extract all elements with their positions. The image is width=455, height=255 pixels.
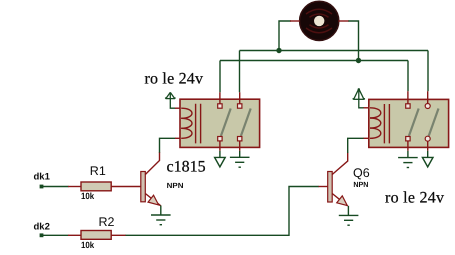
ground under relay RL2: [398, 158, 418, 168]
relay RL1 pin squares: [218, 104, 242, 141]
transistor Q6 emitter arrow: [337, 196, 348, 206]
transistor Q6 emitter lead: [332, 194, 347, 206]
transistor Q6 collector lead: [332, 153, 348, 175]
terminal dk2 node dot: [40, 233, 44, 237]
svg-text:ro le 24v: ro le 24v: [145, 71, 204, 88]
relay RL2 pin squares (left): [406, 104, 410, 141]
junction node net B: [356, 58, 361, 63]
wire dk2 to R2: [43, 234, 69, 236]
arrow terminal under RL1 (open down triangle): [215, 157, 226, 167]
wire RL1 NO pin to ground: [239, 151, 241, 157]
transistor Q1 collector lead: [145, 152, 159, 175]
relay RL2 pin circles (right): [425, 104, 430, 142]
relay RL2 core lines: [384, 104, 389, 143]
wire motor left lead to net A: [279, 21, 291, 51]
arrow terminal under RL2 (open down triangle): [422, 157, 433, 167]
wire Q6 collector to RL2 coil: [348, 138, 364, 153]
wire riser net B to relay RL2 left pin: [407, 61, 409, 92]
wire RL1 NC pin to arrow terminal: [219, 151, 221, 158]
resistor R2 right lead: [111, 234, 126, 236]
resistor R2 body: [81, 231, 111, 240]
svg-text:10k: 10k: [81, 240, 95, 250]
relay RL2 contact arm 2: [429, 109, 439, 137]
svg-text:10k: 10k: [81, 191, 95, 201]
svg-text:dk2: dk2: [34, 222, 50, 233]
ground under relay RL1: [230, 157, 250, 167]
wire Q6 emitter to ground: [347, 206, 349, 216]
relay RL2 coil arcs: [370, 108, 381, 139]
wire dk1 to R1: [43, 186, 69, 188]
resistor R1 left lead: [68, 186, 81, 188]
relay RL1 body: [180, 99, 260, 147]
wire motor right lead to net B: [348, 21, 359, 61]
motor M1 left pin stub: [290, 20, 300, 22]
relay RL1 core lines: [196, 104, 201, 144]
wire riser net A to relay RL2 right pin: [427, 51, 429, 92]
wire RL2 right pin to arrow terminal: [427, 151, 429, 158]
motor M1 right pin stub: [339, 20, 349, 22]
svg-text:R2: R2: [99, 215, 115, 229]
relay RL2 body: [369, 99, 449, 147]
wire riser relay RL1 pin to net B: [219, 61, 221, 93]
transistor Q6 base bar: [328, 172, 333, 203]
wire net A horizontal (motor terminal 1 bus): [240, 50, 429, 52]
svg-text:ro le 24v: ro le 24v: [385, 190, 444, 207]
junction node net A: [276, 48, 281, 53]
svg-text:NPN: NPN: [167, 181, 184, 190]
wire net B horizontal (motor terminal 2 bus): [220, 60, 408, 62]
relay RL1 contact arm 1: [221, 109, 231, 137]
resistor R1 body: [81, 182, 111, 191]
wire RL1 coil bottom stub: [175, 137, 181, 139]
terminal dk1 node dot: [40, 185, 44, 189]
wire Q1 emitter to ground: [160, 206, 162, 216]
ground under Q1: [151, 215, 171, 225]
transistor Q1 emitter arrow: [148, 195, 159, 205]
transistor Q1 c1815 base bar: [141, 172, 146, 202]
relay RL1 coil arcs: [181, 108, 192, 138]
wire power arrow to RL2 coil stub: [364, 107, 370, 109]
relay RL2 contact arm 1: [409, 109, 419, 137]
motor M1 body: [300, 1, 339, 40]
svg-text:c1815: c1815: [167, 159, 206, 176]
transistor Q1 emitter lead: [145, 194, 161, 206]
resistor R2 left lead: [68, 234, 81, 236]
svg-text:dk1: dk1: [34, 172, 51, 183]
svg-text:R1: R1: [90, 164, 106, 178]
svg-text:NPN: NPN: [353, 180, 368, 189]
relay RL1 pin stubs (red): [220, 92, 240, 151]
transistor Q6 base stub: [319, 186, 328, 188]
power terminal relay RL2 coil (up arrow): [353, 88, 364, 108]
svg-text:Q6: Q6: [353, 166, 370, 180]
wire power arrow to RL1 coil stub: [175, 107, 181, 109]
wire riser relay RL1 pin to net A: [239, 51, 241, 93]
power terminal relay RL1 coil (up arrow): [166, 92, 176, 108]
ground under Q6: [339, 215, 359, 225]
wire RL2 coil bottom stub: [364, 137, 370, 139]
wire RL2 left pin to ground: [407, 151, 409, 158]
wire Q1 collector to RL1 coil: [160, 138, 176, 152]
resistor R1 right lead to transistor base: [111, 186, 141, 188]
relay RL1 contact arm 2: [241, 109, 251, 137]
relay RL2 pin stubs (red): [408, 91, 428, 151]
wire R2 to Q6 base: [126, 187, 319, 236]
